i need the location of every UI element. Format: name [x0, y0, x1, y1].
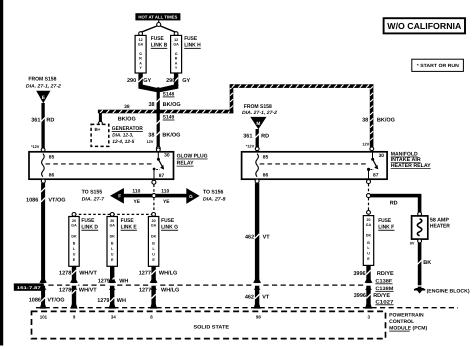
connector line C1027 (dashed) — [36, 307, 458, 309]
label 38 BK/OG (right drop) — [362, 117, 395, 123]
svg-text:HEATER: HEATER — [430, 224, 450, 230]
svg-text:FROM S158: FROM S158 — [28, 77, 56, 83]
pin 87 terminal (manifold) — [367, 180, 371, 184]
svg-text:U: U — [73, 253, 76, 257]
connector on 1278 wire — [70, 280, 79, 290]
wire: feed to fuse link B — [141, 26, 157, 32]
label FUSE LINK H — [184, 36, 201, 49]
svg-text:361: 361 — [31, 118, 40, 124]
wire dashed: glow pin 87 to YE junction — [153, 184, 155, 193]
fuse link H body — [171, 35, 182, 73]
svg-text:FUSE: FUSE — [151, 36, 164, 42]
svg-text:1279: 1279 — [97, 298, 109, 304]
svg-text:RD: RD — [46, 118, 54, 124]
manifold relay coil — [256, 154, 259, 177]
node: feed junction — [157, 20, 161, 26]
heater terminal (bottom) — [418, 239, 422, 243]
svg-text:110: 110 — [161, 188, 169, 194]
svg-text:RELAY: RELAY — [177, 161, 194, 167]
svg-text:HEATER RELAY: HEATER RELAY — [391, 163, 431, 169]
wire 1086 VT/OG — [41, 183, 45, 304]
label FUSE LINK D — [81, 218, 98, 231]
wire BK/OG hatched horizontal (generator to riser) — [98, 110, 233, 114]
svg-text:U: U — [152, 253, 155, 257]
svg-text:TO S155: TO S155 — [82, 190, 103, 196]
pin flare 1277 into PCM — [150, 304, 157, 309]
svg-text:WH/VT: WH/VT — [79, 287, 97, 293]
label 110 YE (left of junction) — [132, 188, 140, 205]
svg-text:1277: 1277 — [139, 271, 151, 277]
heater terminal (top) — [418, 212, 422, 216]
wire dashed: YE junction to fuse link G — [153, 198, 155, 212]
svg-text:462: 462 — [245, 294, 254, 300]
svg-text:GA: GA — [366, 223, 372, 227]
node: RD junction — [367, 194, 371, 198]
wire 1279 WH — [110, 266, 114, 304]
svg-text:POWERTRAIN: POWERTRAIN — [389, 313, 424, 319]
wire dashed: fuse link D/E/G feed bus — [74, 213, 154, 215]
svg-text:U: U — [111, 253, 114, 257]
off-page arrow M FROM S158 — [242, 104, 277, 129]
svg-text:DIA. 27-7: DIA. 27-7 — [82, 197, 105, 203]
svg-text:WH: WH — [117, 298, 126, 304]
svg-text:1277: 1277 — [139, 287, 151, 293]
svg-text:G: G — [189, 194, 193, 199]
wire: feed to fuse link H — [160, 26, 175, 32]
svg-text:12: 12 — [174, 38, 178, 42]
svg-text:B+: B+ — [94, 127, 100, 132]
svg-text:LINK H: LINK H — [184, 43, 201, 49]
svg-text:LINK G: LINK G — [161, 225, 178, 231]
wire 38 BK/OG from S148 to S149 — [156, 90, 160, 112]
svg-text:38: 38 — [148, 132, 154, 138]
label 58 AMP HEATER — [430, 218, 450, 230]
fuse link D terminal — [72, 213, 76, 217]
label GENERATOR — [112, 126, 143, 132]
svg-text:12: 12 — [139, 38, 143, 42]
svg-text:20: 20 — [72, 219, 76, 223]
label DIA. 12-3, 12-4, 12-5 — [112, 133, 134, 145]
svg-text:290: 290 — [166, 78, 175, 84]
fuse link E terminal — [110, 213, 114, 217]
svg-text:1086: 1086 — [29, 298, 41, 304]
label 3996 RD/YE (lower) — [354, 293, 391, 299]
svg-text:F: F — [118, 194, 121, 199]
svg-text:38: 38 — [362, 117, 368, 123]
svg-text:B: B — [367, 241, 370, 245]
svg-text:VT/OG: VT/OG — [47, 298, 64, 304]
svg-text:R: R — [139, 57, 142, 61]
connector on 1277 wire — [149, 280, 158, 290]
svg-text:GY: GY — [182, 78, 190, 84]
pin flare 1086 into PCM — [40, 304, 47, 309]
svg-text:FUSE: FUSE — [121, 218, 134, 224]
svg-text:FUSE: FUSE — [161, 218, 174, 224]
label 1277 WH/LG (lower) — [139, 287, 179, 293]
svg-text:DK: DK — [151, 235, 157, 239]
fuse link B body — [135, 35, 146, 73]
off-page arrow G TO S156 — [186, 188, 225, 204]
svg-text:A: A — [175, 61, 178, 65]
svg-text:3996: 3996 — [354, 293, 366, 299]
pin: glow relay 85 terminal — [41, 148, 45, 152]
fuse link E body — [107, 217, 117, 267]
svg-text:DIA. 27-8: DIA. 27-8 — [203, 196, 226, 202]
fuse link H (12 GA GRAY) — [174, 32, 178, 36]
svg-text:FUSE: FUSE — [81, 218, 94, 224]
svg-text:U: U — [367, 252, 370, 256]
wire 290 GY from fuse link H — [158, 73, 178, 92]
splice S149 dot (over hatch) — [156, 109, 161, 114]
svg-text:RD/YE: RD/YE — [373, 293, 390, 299]
pin: glow relay 30 terminal circle — [156, 146, 160, 150]
glow relay coil — [42, 154, 45, 177]
svg-text:M: M — [256, 121, 260, 127]
svg-text:20: 20 — [152, 219, 156, 223]
label FUSE LINK B — [151, 36, 168, 49]
svg-text:12V: 12V — [146, 139, 153, 144]
label S148 — [163, 91, 175, 97]
fuse link F terminal — [367, 211, 371, 215]
wire 290 GY from fuse link B — [138, 73, 158, 92]
svg-text:12V: 12V — [362, 142, 369, 147]
node: YE junction — [152, 194, 156, 198]
svg-text:GLOW PLUG: GLOW PLUG — [177, 153, 208, 159]
manifold relay switch — [367, 152, 378, 180]
svg-text:YE: YE — [134, 199, 141, 205]
svg-text:(ENGINE BLOCK): (ENGINE BLOCK) — [427, 288, 470, 294]
label box W/O CALIFORNIA — [384, 18, 465, 33]
svg-text:W/O CALIFORNIA: W/O CALIFORNIA — [387, 21, 462, 31]
fuse link D body — [69, 217, 79, 267]
svg-text:86: 86 — [263, 172, 269, 178]
label C138F — [375, 278, 392, 284]
pin flare 1278 into PCM — [70, 304, 77, 309]
svg-text:87: 87 — [159, 173, 165, 179]
label 1278 WH/VT (lower) — [59, 287, 97, 293]
svg-text:* START OR RUN: * START OR RUN — [417, 63, 460, 68]
connector line (dashed, left) — [14, 284, 366, 286]
svg-text:361: 361 — [243, 134, 252, 140]
svg-text:LINK F: LINK F — [378, 225, 395, 231]
label 38 BK/OG (upper) — [148, 102, 180, 108]
label FUSE LINK G — [161, 218, 178, 231]
wire RD to heater — [369, 194, 422, 212]
pin 86 terminal (glow) — [41, 179, 45, 183]
powertrain control module (PCM) dashed box — [32, 311, 386, 338]
svg-text:FUSE: FUSE — [184, 36, 197, 42]
svg-text:GA: GA — [71, 224, 77, 228]
pin flare 1279 into PCM — [109, 304, 116, 309]
svg-text:VT: VT — [262, 294, 270, 300]
pin flare 3996 into PCM — [365, 304, 372, 309]
label 462 VT (lower) — [245, 294, 270, 300]
svg-text:30: 30 — [379, 153, 385, 159]
label 38 BK/OG (glow relay drop) — [148, 132, 180, 138]
connector C138F/C138M on 3996 wire — [364, 280, 373, 290]
label C1027 — [375, 299, 393, 305]
pin: manifold relay 30 terminal — [370, 147, 374, 151]
connector on 1279 wire — [108, 280, 117, 290]
svg-text:GA: GA — [110, 224, 116, 228]
svg-text:151-7.87: 151-7.87 — [17, 286, 41, 290]
svg-text:290: 290 — [127, 78, 136, 84]
svg-text:DK: DK — [110, 235, 116, 239]
svg-text:GY: GY — [143, 78, 151, 84]
svg-text:87: 87 — [373, 173, 379, 179]
glow relay switch — [153, 152, 164, 180]
svg-text:G: G — [175, 52, 178, 56]
wire hatched riser (left) — [230, 84, 234, 113]
svg-text:GA: GA — [138, 42, 144, 46]
svg-text:WH/LG: WH/LG — [159, 271, 177, 277]
svg-text:B: B — [152, 242, 155, 246]
svg-text:DIA. 27-1, 27-2: DIA. 27-1, 27-2 — [242, 110, 277, 116]
svg-text:1278: 1278 — [59, 271, 71, 277]
svg-text:LINK B: LINK B — [151, 43, 168, 49]
svg-text:TO S156: TO S156 — [203, 190, 224, 196]
label C138M — [375, 286, 393, 292]
svg-text:110: 110 — [132, 188, 140, 194]
svg-text:BK: BK — [423, 260, 431, 266]
svg-text:BK/OG: BK/OG — [377, 117, 395, 123]
svg-text:MODULE (PCM): MODULE (PCM) — [389, 325, 427, 331]
fuse link F body — [363, 216, 373, 266]
wire 38 BK/OG hatched drop to manifold relay — [370, 84, 374, 147]
off-page arrow E FROM S158 — [26, 77, 61, 104]
label FUSE LINK F — [378, 218, 395, 231]
connector on 1086 wire — [39, 280, 47, 290]
glow plug relay box — [29, 152, 174, 179]
label 361 RD (left) — [31, 118, 54, 124]
svg-text:*12V: *12V — [31, 144, 40, 149]
generator B+ terminal — [99, 113, 103, 125]
svg-text:YE: YE — [163, 199, 170, 205]
svg-text:BK/OG: BK/OG — [163, 102, 181, 108]
svg-text:0V: 0V — [410, 241, 415, 245]
svg-text:FUSE: FUSE — [378, 218, 391, 224]
label 290 GY (H) — [166, 78, 190, 84]
svg-text:WH/VT: WH/VT — [79, 271, 97, 277]
svg-text:20: 20 — [110, 219, 114, 223]
svg-text:LINK D: LINK D — [81, 225, 98, 231]
wire 462 VT — [255, 183, 259, 304]
svg-text:RD: RD — [390, 201, 398, 207]
svg-text:VT/OG: VT/OG — [48, 197, 65, 203]
svg-text:DIA. 27-1, 27-2: DIA. 27-1, 27-2 — [26, 83, 61, 89]
svg-text:1279: 1279 — [98, 278, 110, 284]
power feed HOT AT ALL TIMES — [135, 13, 180, 20]
svg-text:101: 101 — [40, 314, 48, 319]
label 290 GY (B) — [127, 78, 151, 84]
svg-text:34: 34 — [111, 314, 116, 319]
svg-text:LINK E: LINK E — [121, 225, 137, 231]
svg-text:SOLID STATE: SOLID STATE — [194, 325, 230, 331]
svg-text:85: 85 — [263, 154, 269, 160]
svg-text:GENERATOR: GENERATOR — [112, 126, 143, 132]
svg-text:DK: DK — [71, 235, 77, 239]
ground (engine block) — [414, 287, 425, 294]
svg-text:G: G — [139, 52, 142, 56]
svg-text:GA: GA — [151, 224, 157, 228]
svg-text:3996: 3996 — [353, 271, 365, 277]
label POWERTRAIN CONTROL MODULE (PCM) — [389, 313, 427, 332]
wire 1278 WH/VT — [72, 266, 76, 304]
svg-text:BK/OG: BK/OG — [118, 116, 136, 122]
splice S149 — [156, 109, 161, 114]
manifold intake air heater relay box — [242, 152, 388, 179]
fuse link G body — [148, 217, 158, 267]
wire 1277 WH/LG — [151, 266, 155, 304]
pin 30 terminal (glow) — [156, 148, 160, 152]
wire dashed: RD junction to fuse link F — [368, 198, 370, 210]
wire dashed: manifold pin 87 to RD junction — [368, 184, 370, 193]
manifold relay coil-to-switch dashed link — [260, 163, 366, 165]
wire hatched horizontal (top run) — [230, 84, 374, 88]
svg-text:*12V: *12V — [246, 143, 255, 148]
label 1086 VT/OG (upper) — [26, 197, 65, 203]
wire 110 YE bus — [123, 194, 186, 198]
svg-text:12-4, 12-5: 12-4, 12-5 — [112, 139, 134, 145]
label 110 YE (right of junction) — [161, 188, 170, 205]
svg-text:FROM S158: FROM S158 — [244, 104, 272, 110]
label 1086 VT/OG (lower) — [29, 298, 65, 304]
svg-text:RD/YE: RD/YE — [377, 271, 394, 277]
page reference badge 151-7.87 — [14, 283, 44, 290]
svg-text:B: B — [73, 242, 76, 246]
label box START OR RUN — [412, 59, 464, 71]
svg-text:A: A — [139, 61, 142, 65]
svg-text:1278: 1278 — [59, 287, 71, 293]
svg-text:30: 30 — [164, 153, 170, 159]
fuse link G terminal — [152, 213, 156, 217]
wire 361 RD (left) — [41, 103, 45, 148]
label 3996 RD/YE (upper) — [353, 271, 394, 277]
off-page arrow F TO S155 — [82, 188, 124, 204]
label MANIFOLD INTAKE AIR HEATER RELAY — [391, 151, 431, 169]
svg-text:20: 20 — [367, 218, 371, 222]
label 462 VT (upper) — [245, 235, 270, 241]
svg-text:GA: GA — [173, 42, 179, 46]
svg-text:VT: VT — [263, 235, 271, 241]
svg-text:58 AMP: 58 AMP — [430, 218, 449, 224]
svg-text:DK: DK — [366, 234, 372, 238]
svg-text:WH: WH — [119, 278, 128, 284]
svg-text:BK/OG: BK/OG — [162, 132, 180, 138]
pin flare 462 into PCM — [254, 304, 261, 309]
svg-text:CONTROL: CONTROL — [389, 319, 414, 325]
label GLOW PLUG RELAY — [177, 153, 208, 166]
svg-text:38: 38 — [124, 104, 130, 110]
svg-text:RD: RD — [261, 134, 269, 140]
pin 87 terminal (glow) — [152, 180, 156, 184]
svg-text:B: B — [111, 242, 114, 246]
pin 86 terminal (manifold) — [255, 179, 259, 183]
svg-text:85: 85 — [49, 154, 55, 160]
wire 361 RD (right) — [255, 129, 259, 147]
label 361 RD (right) — [243, 134, 269, 140]
wire BK to ground — [418, 243, 422, 285]
svg-text:HOT AT ALL TIMES: HOT AT ALL TIMES — [138, 15, 177, 20]
label S149 — [163, 115, 175, 121]
glow relay coil-to-switch dashed link — [46, 163, 152, 165]
svg-text:DIA. 12-3,: DIA. 12-3, — [112, 133, 133, 139]
generator (dashed box) — [91, 124, 109, 146]
svg-text:86: 86 — [49, 172, 55, 178]
svg-text:1086: 1086 — [26, 197, 38, 203]
svg-text:WH/LG: WH/LG — [161, 287, 179, 293]
svg-text:98: 98 — [256, 314, 261, 319]
label FUSE LINK E — [121, 218, 137, 231]
label 1279 WH (lower) — [97, 298, 126, 304]
heater 58 AMP box — [412, 216, 428, 239]
wire: left page border — [0, 0, 3, 346]
svg-text:38: 38 — [148, 102, 154, 108]
label 1277 WH/LG (upper) — [139, 271, 177, 277]
pin: manifold relay 85 terminal — [255, 147, 259, 151]
svg-text:462: 462 — [245, 235, 254, 241]
fuse link B (12 GA GRAY) — [139, 32, 143, 36]
wire 3996 RD/YE — [366, 265, 370, 304]
svg-text:R: R — [175, 57, 178, 61]
wire 38 BK/OG from S149 to glow relay pin 30 — [156, 111, 160, 146]
connector on 462 wire (C138) — [253, 280, 262, 290]
label 1278 WH/VT (upper) — [59, 271, 98, 277]
label 1279 WH (upper) — [98, 278, 129, 284]
splice S148 — [156, 87, 161, 92]
